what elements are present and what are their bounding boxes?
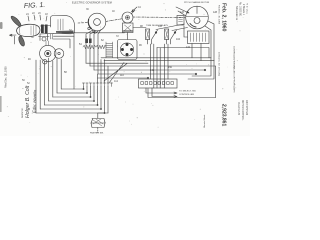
time delay relay K2 bbox=[165, 29, 177, 44]
shaft dash line bbox=[106, 17, 185, 21]
terminal row clamps bbox=[82, 83, 112, 87]
svg-text:100: 100 bbox=[158, 25, 163, 28]
svg-text:FILED 12-30: FILED 12-30 bbox=[237, 102, 239, 116]
resistor R2 zigzag bbox=[96, 45, 106, 49]
propeller blade lower bbox=[19, 36, 25, 46]
nacelle bottom dashes bbox=[51, 34, 53, 39]
label under plug bbox=[90, 132, 104, 135]
strip output wires with arrows bbox=[146, 88, 177, 98]
battery box B1 bbox=[188, 31, 210, 44]
svg-text:FIG. 1.: FIG. 1. bbox=[24, 2, 46, 10]
svg-text:72: 72 bbox=[116, 35, 119, 38]
svg-text:62: 62 bbox=[101, 39, 104, 42]
long vertical wire x74 bbox=[73, 33, 75, 89]
governor G2 circle bbox=[122, 10, 135, 23]
svg-text:30: 30 bbox=[31, 36, 34, 39]
relay box leads bbox=[127, 23, 146, 40]
label TIME DELAY RELAYS bbox=[146, 24, 168, 27]
aux small circle bbox=[43, 60, 47, 64]
svg-text:FEATHER SW.: FEATHER SW. bbox=[90, 132, 104, 135]
svg-text:58: 58 bbox=[64, 71, 67, 74]
right bus verticals bbox=[188, 58, 216, 98]
right margin lower small text bbox=[237, 100, 248, 121]
svg-text:54: 54 bbox=[79, 43, 82, 46]
svg-text:52: 52 bbox=[27, 82, 30, 85]
time delay relay K1 bbox=[146, 29, 158, 44]
connector plug P1 bbox=[118, 40, 138, 60]
leader lines to nacelle bbox=[28, 15, 47, 21]
cowl joining lines bbox=[40, 26, 54, 35]
label INVENTOR bbox=[22, 107, 24, 118]
svg-text:104: 104 bbox=[176, 38, 181, 41]
figure label FIG. 1 bbox=[24, 2, 46, 10]
label 112 bbox=[114, 80, 119, 83]
svg-text:142: 142 bbox=[150, 69, 155, 72]
svg-text:2 Sheets 1: 2 Sheets 1 bbox=[242, 4, 245, 16]
nacelle bottom dark band bbox=[56, 31, 74, 34]
inventor signature script bbox=[25, 85, 37, 118]
edge smudge left bottom bbox=[0, 96, 2, 112]
terminal strip TS1 bbox=[139, 79, 178, 88]
leader from nacelle to generator bbox=[46, 41, 49, 46]
generator main circle bbox=[40, 45, 56, 61]
svg-text:126: 126 bbox=[180, 11, 185, 14]
svg-text:TO SELECT. SW.: TO SELECT. SW. bbox=[179, 91, 197, 93]
svg-text:MOTOR CONTROL: MOTOR CONTROL bbox=[241, 100, 243, 121]
svg-text:24: 24 bbox=[26, 13, 29, 16]
svg-text:50: 50 bbox=[22, 79, 25, 82]
governor G1 circle bbox=[88, 13, 106, 31]
svg-text:Edw. Hamlin: Edw. Hamlin bbox=[32, 89, 38, 113]
svg-text:CONTROLLED WINDMILLING OF PROP: CONTROLLED WINDMILLING OF PROPELLERS bbox=[233, 46, 235, 93]
wire to bottom plug bbox=[98, 113, 108, 118]
svg-text:PITCH CHANGE MOTOR: PITCH CHANGE MOTOR bbox=[184, 1, 210, 4]
label 30 bbox=[31, 36, 34, 39]
governor lead stems bbox=[86, 30, 101, 75]
right margin filing text bbox=[218, 5, 220, 76]
aux box near motor bbox=[177, 16, 184, 26]
propeller blade upper bbox=[11, 16, 21, 26]
pitch change motor label bbox=[184, 1, 210, 4]
junction dots bbox=[83, 88, 106, 114]
svg-text:H. B. COLT: H. B. COLT bbox=[246, 3, 248, 15]
generator drop wires staircase bbox=[36, 58, 61, 113]
bus end terminals bbox=[147, 69, 206, 79]
motor leads bbox=[205, 21, 214, 61]
bottom bus wires bbox=[36, 89, 105, 113]
svg-text:22: 22 bbox=[32, 12, 35, 15]
svg-text:Feb. 2, 1960: Feb. 2, 1960 bbox=[221, 3, 227, 32]
svg-text:2,923,861: 2,923,861 bbox=[221, 104, 227, 126]
svg-text:No. 2,923,861: No. 2,923,861 bbox=[239, 2, 241, 17]
bottom plug J1 bbox=[91, 119, 105, 128]
svg-text:ELECTRIC GOVERNOR SYSTEM: ELECTRIC GOVERNOR SYSTEM bbox=[72, 2, 112, 5]
edge smudge left top bbox=[0, 22, 3, 29]
relay feed diagonals bbox=[156, 24, 188, 31]
strip terminals bbox=[141, 82, 174, 85]
engine dark details bbox=[41, 25, 48, 34]
fan vertical wires bbox=[84, 87, 109, 114]
relay box K0 bbox=[123, 23, 134, 33]
svg-text:AND SYSTEM: AND SYSTEM bbox=[245, 100, 248, 115]
svg-text:CONTROLLER: CONTROLLER bbox=[179, 94, 194, 96]
generator second circle bbox=[54, 49, 64, 59]
sheet note rotated bbox=[203, 114, 206, 128]
svg-text:96: 96 bbox=[139, 44, 142, 47]
brush block knot bbox=[85, 39, 91, 44]
svg-text:110: 110 bbox=[120, 74, 124, 77]
bottom right bus wire bbox=[148, 89, 216, 98]
connector pins bbox=[121, 43, 133, 56]
label 50 52 bbox=[22, 79, 30, 85]
relay drop wires to strip bbox=[151, 44, 169, 88]
svg-text:Schematic 1a: Schematic 1a bbox=[235, 6, 238, 21]
svg-text:20: 20 bbox=[38, 12, 41, 15]
rear body vent ticks bbox=[58, 19, 63, 30]
arrow to G2 bbox=[132, 7, 138, 12]
svg-text:Filed Dec. 30, 1955: Filed Dec. 30, 1955 bbox=[218, 5, 220, 25]
svg-text:36: 36 bbox=[86, 8, 89, 11]
leader wire below arrow bbox=[13, 36, 15, 44]
svg-text:46: 46 bbox=[28, 58, 31, 61]
shaft dash from nacelle bbox=[78, 22, 88, 24]
mid bus wires bbox=[86, 58, 216, 78]
svg-text:18: 18 bbox=[45, 13, 48, 16]
motor leader arrows bbox=[176, 7, 189, 16]
battery leads bbox=[184, 26, 201, 61]
svg-text:150: 150 bbox=[168, 66, 173, 69]
leader numerals 24 22 20 18 bbox=[26, 12, 48, 16]
scan speckle noise bbox=[6, 2, 243, 128]
engine hatch detail bbox=[31, 26, 36, 36]
label TO SELECTOR SWITCH CONTROLLER bbox=[179, 91, 197, 96]
nacelle rear body bbox=[51, 15, 75, 33]
svg-text:Holger B. Colt: Holger B. Colt bbox=[25, 85, 31, 118]
plug stem bbox=[97, 128, 99, 133]
spinner ellipse bbox=[17, 24, 41, 36]
scattered reference numerals bbox=[28, 11, 218, 77]
svg-text:134: 134 bbox=[186, 46, 191, 49]
svg-text:Sheets-Sheet: Sheets-Sheet bbox=[203, 114, 206, 128]
svg-text:128: 128 bbox=[213, 11, 218, 14]
label 44 bbox=[86, 6, 141, 13]
label ELECTRIC GOVERNOR SYSTEM bbox=[72, 2, 112, 5]
right margin inventor name bbox=[235, 2, 248, 21]
under-box bus wire bbox=[157, 48, 209, 58]
svg-text:Filed Dec. 30, 1955: Filed Dec. 30, 1955 bbox=[5, 66, 8, 88]
top bus wire bbox=[62, 32, 125, 34]
bus-to-terminal vertical wires bbox=[98, 60, 109, 84]
svg-text:44: 44 bbox=[138, 6, 141, 9]
right margin date text bbox=[221, 3, 227, 32]
svg-text:112: 112 bbox=[114, 80, 119, 83]
svg-text:14 Claims. (Cl. 170-135): 14 Claims. (Cl. 170-135) bbox=[218, 52, 220, 76]
left margin rotated text bbox=[5, 66, 8, 88]
under-nacelle wires bbox=[53, 36, 74, 48]
svg-text:40: 40 bbox=[112, 10, 115, 13]
arrow left of prop bbox=[10, 34, 17, 36]
pitch change motor M1 bbox=[186, 6, 209, 29]
resistor ladder RL bbox=[106, 42, 113, 58]
crossing diagonal wires bbox=[104, 63, 127, 84]
svg-text:INVENTOR.: INVENTOR. bbox=[22, 107, 24, 118]
right margin title text bbox=[233, 46, 235, 93]
right margin patent number bbox=[221, 104, 227, 126]
governor rim rollers bbox=[88, 27, 95, 32]
gearbox mount under nacelle bbox=[39, 34, 50, 41]
resistor R1 zigzag bbox=[83, 45, 96, 49]
